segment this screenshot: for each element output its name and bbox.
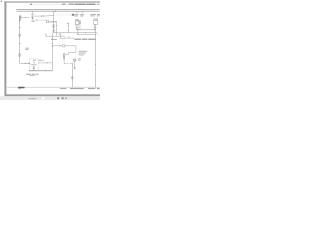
box bottom wire — [29, 70, 53, 72]
oval connector C102 — [19, 53, 21, 56]
feed wire to circle — [52, 45, 62, 47]
left long wire upper — [19, 19, 21, 63]
faint wire to arrow — [54, 14, 72, 16]
junction dot lamp pin — [76, 28, 79, 31]
header title text — [69, 4, 74, 5]
ground symbol — [74, 66, 76, 68]
wire down from connectors — [63, 59, 65, 64]
header right mark — [97, 4, 100, 5]
fusible link oval — [41, 15, 43, 17]
second drop x56.6 — [56, 21, 58, 36]
oval connector on down wire — [72, 76, 74, 79]
box output wire 2 — [38, 62, 52, 64]
small wire labels under bus — [76, 11, 79, 14]
vertical x68.4 — [67, 24, 69, 33]
page left border band — [4, 1, 6, 96]
wire 2 cluster to connector C — [35, 19, 47, 21]
inner fuse element — [33, 67, 34, 69]
long vertical wire mid — [51, 33, 53, 71]
junction tick — [71, 63, 73, 64]
K1 label text — [50, 21, 57, 22]
ticks — [68, 24, 70, 26]
RH pins — [93, 24, 95, 30]
footer text 1 — [60, 88, 67, 89]
tick on left wire 2 — [19, 43, 21, 45]
connector circle on left wire — [19, 20, 20, 21]
pin ticks — [94, 27, 95, 29]
bump on bottom wire — [44, 69, 47, 71]
footer rule — [7, 86, 100, 88]
taskbar search text — [28, 98, 36, 99]
lamp label text RH1 — [90, 14, 95, 15]
wire cluster to fusible link — [34, 15, 42, 17]
header title text 2 — [75, 4, 86, 5]
text above box — [25, 47, 29, 50]
junction blob at box entry — [29, 63, 30, 64]
ticks on feed wire — [59, 45, 61, 46]
lamp label text LH1 — [75, 14, 79, 15]
right long vertical — [95, 30, 97, 87]
cluster label text — [31, 21, 34, 22]
left wire bend to box — [20, 62, 30, 64]
header title text 3 — [86, 4, 95, 5]
tick on left wire — [19, 26, 21, 28]
inline connector ticks — [24, 63, 26, 64]
taskbar icon 3 — [65, 98, 67, 100]
corner dot — [1, 1, 2, 2]
tick on second drop — [56, 24, 58, 26]
oval connector C101 — [19, 34, 21, 37]
bump on right vertical — [94, 63, 97, 65]
mid fuse F2 — [79, 21, 80, 24]
network text row — [51, 39, 57, 40]
taskbar strip — [0, 96, 100, 100]
box output wire 1 — [38, 59, 44, 61]
footer text 2 — [70, 88, 84, 89]
horizontal H1 — [54, 32, 97, 34]
fog lamp text block — [79, 51, 88, 52]
head lamp LH assembly — [75, 19, 77, 21]
wire right solid — [64, 63, 67, 65]
off-page arrow label — [72, 14, 74, 16]
fuse F1 — [19, 16, 21, 19]
connector bracket bar — [64, 37, 74, 40]
taskbar icon 2 — [62, 97, 64, 99]
wire dashed segment — [67, 63, 70, 65]
L wire from H1 — [60, 33, 62, 39]
junction dot — [93, 28, 96, 31]
bus line A — [16, 8, 99, 10]
ticks on mid vertical — [52, 38, 54, 40]
box inner text — [31, 64, 37, 65]
right lower horizontal — [78, 34, 96, 36]
relay box (dashed) — [29, 59, 38, 71]
ticks on wire 1 — [39, 60, 41, 61]
fog lamp bulb — [73, 59, 76, 62]
footer text 3 — [88, 88, 95, 89]
bulb ground drop — [74, 61, 76, 67]
junction dot on bus B — [55, 11, 56, 12]
wire cluster drop — [32, 11, 34, 20]
circle output loop — [65, 46, 76, 55]
junction dot right — [94, 28, 97, 31]
connector rect B — [63, 57, 64, 59]
bold stamp mark — [18, 87, 24, 88]
wire to down turn — [70, 63, 72, 65]
connector rect A — [63, 54, 65, 56]
connector circle pair — [31, 17, 32, 18]
wire link to drop — [44, 15, 54, 18]
relay coil inside — [33, 60, 34, 61]
page background — [0, 0, 100, 100]
head lamp RH assembly — [94, 18, 96, 20]
page top border band — [4, 1, 100, 2]
footer right mark — [97, 88, 100, 89]
horizontal H2 — [46, 35, 65, 37]
component K1 — [46, 20, 48, 22]
header word — [30, 4, 32, 5]
node dot — [67, 22, 68, 25]
header rule — [32, 3, 96, 5]
lamp collector wire — [76, 29, 94, 31]
fuse rects on drop — [53, 25, 54, 27]
wire fuse to cluster — [21, 16, 29, 18]
bus line B — [16, 10, 99, 12]
lamp label text LH2 — [80, 14, 84, 15]
connector ticks — [35, 20, 37, 21]
oval at H2 left — [45, 34, 46, 36]
pin ticks — [76, 27, 77, 29]
taskbar white pill — [42, 97, 45, 99]
wire fuse drop — [19, 15, 21, 16]
wire label text row right — [74, 39, 81, 40]
ticks on wire 2 — [46, 62, 48, 63]
text below box — [26, 74, 31, 75]
down wire to footer — [71, 64, 73, 88]
second bulb mark — [79, 59, 81, 61]
header text 96-4 — [62, 4, 66, 5]
connector tick — [24, 17, 26, 18]
LH pins — [75, 25, 77, 30]
lamp label text RH2 — [97, 14, 100, 15]
motor circle M — [62, 44, 65, 47]
relay switch blade — [33, 61, 34, 63]
drop from bus at x53.6 — [53, 11, 55, 33]
page bottom border band — [4, 94, 100, 96]
bracket label tick — [68, 37, 69, 38]
oval connector on drop — [53, 29, 55, 32]
taskbar icon 1 — [57, 97, 59, 99]
